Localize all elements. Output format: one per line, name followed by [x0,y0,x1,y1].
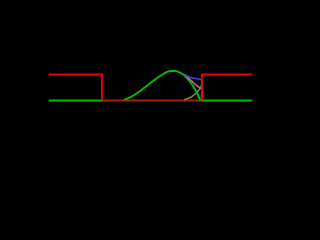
dark red low segment of square wave [103,100,202,102]
olive curve rising to edge [185,81,203,100]
green baseline right segment [202,100,252,102]
green baseline left segment (signal at zero level) [50,100,103,102]
green gaussian bump [125,71,200,100]
red square wave rising edge and right high segment [202,75,252,100]
red square wave left pulse (high then falling edge) [49,75,102,100]
purple line to corner [186,77,202,89]
blue curve with shoulder and cliff [184,74,202,98]
